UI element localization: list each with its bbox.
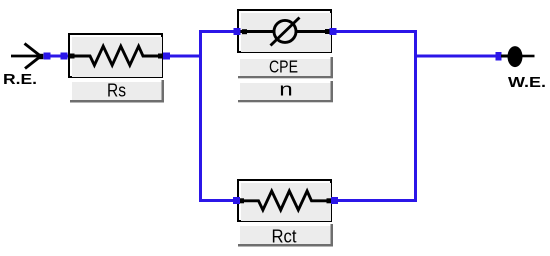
svg-text:n: n xyxy=(279,79,293,100)
wire left bus to CPE input xyxy=(199,30,237,33)
svg-text:W.E.: W.E. xyxy=(508,74,546,91)
wire left bus vertical xyxy=(199,30,202,202)
CPE name label xyxy=(238,57,333,79)
node: R.E. junction xyxy=(44,53,51,60)
node: CPE input xyxy=(234,28,241,35)
wire right bus vertical xyxy=(414,30,417,202)
terminal R.E. arrow xyxy=(11,44,43,69)
node: W.E. input xyxy=(496,52,502,61)
resistor Rct box xyxy=(238,180,331,221)
resistor Rct symbol xyxy=(239,191,332,210)
resistor Rs value label xyxy=(70,80,164,103)
svg-text:Rct: Rct xyxy=(272,227,297,247)
CPE symbol (circle with slash) xyxy=(240,18,330,46)
resistor Rs symbol xyxy=(70,46,164,65)
node: Rct output xyxy=(331,197,338,204)
node: Rct input xyxy=(233,197,240,204)
node: Rs output xyxy=(163,53,170,60)
node: CPE output xyxy=(330,28,337,35)
wire Rct output to right bus xyxy=(332,199,417,202)
svg-text:Rs: Rs xyxy=(107,81,126,101)
resistor Rs box xyxy=(69,34,162,77)
resistor Rct value label xyxy=(238,224,333,247)
svg-text:CPE: CPE xyxy=(269,57,298,77)
wire R.E. terminal to Rs input xyxy=(44,55,68,58)
wire right bus to W.E. terminal xyxy=(414,55,497,58)
CPE exponent n label xyxy=(238,79,333,103)
terminal W.E. electrode xyxy=(501,46,535,67)
wire Rs output to left bus xyxy=(163,55,202,58)
node: Rs input xyxy=(61,53,68,60)
wire CPE output to right bus xyxy=(332,30,417,33)
CPE element box xyxy=(238,10,331,52)
wire left bus to Rct input xyxy=(199,199,237,202)
svg-text:R.E.: R.E. xyxy=(3,71,37,88)
